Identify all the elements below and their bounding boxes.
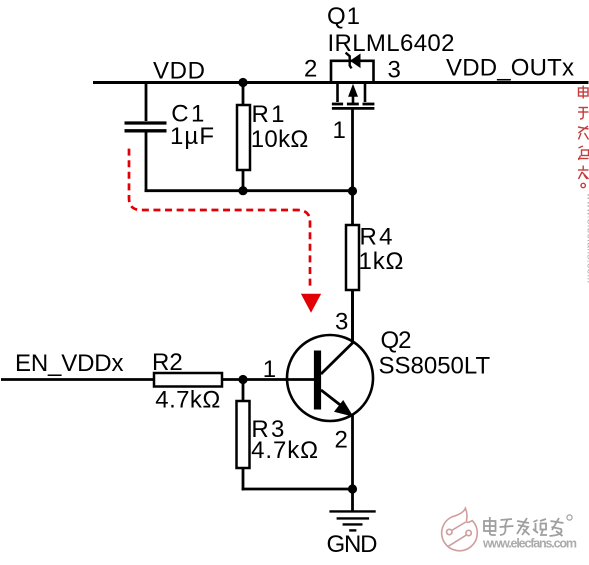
svg-text:VDD_OUTx: VDD_OUTx [446,55,574,82]
transistor Q2 NPN SS8050LT [222,335,373,421]
resistor R4 [346,191,359,343]
svg-text:Q1: Q1 [327,3,360,30]
gate bar [332,107,375,110]
Q2 emitter diagonal [321,390,348,411]
svg-text:IRLML6402: IRLML6402 [328,30,455,57]
resistor R1 [237,83,250,192]
svg-text:Q2: Q2 [381,327,412,354]
svg-text:VDD: VDD [153,57,205,84]
svg-text:GND: GND [327,531,378,558]
Q2 base wire [222,378,314,381]
svg-text:EN_VDDx: EN_VDDx [15,350,124,377]
chinese text dianzifashaoyou [484,515,572,536]
node junction dot at GND [348,484,357,493]
wire emitter vertical [351,415,354,489]
source stub left [336,84,339,102]
watermark bottom right logo and text [442,508,577,551]
body diode cathode bar [346,53,352,69]
red arrowhead [301,294,321,313]
svg-text:1kΩ: 1kΩ [359,248,404,275]
svg-text:2: 2 [335,427,348,454]
node junction dot rail at gate [348,186,357,195]
wire bottom rail R3-GND [242,488,353,491]
drain stub right [364,84,367,102]
channel bar middle [347,103,359,106]
svg-text:R4: R4 [360,223,393,250]
body diode box [331,61,374,83]
svg-text:1: 1 [263,356,276,383]
Q2 collector diagonal [321,343,353,375]
watermark right edge vertical chinese [578,86,589,284]
transistor Q1 P-MOSFET symbol [331,53,374,191]
wire EN_VDDx input [1,378,154,381]
svg-text:4.7kΩ: 4.7kΩ [155,387,220,414]
resistor R3 [237,380,250,491]
channel bar left [332,103,343,106]
red dashed feedback path [129,149,310,290]
svg-text:1µF: 1µF [170,123,214,150]
body diode triangle [350,54,361,69]
wire collector vertical [351,290,354,343]
channel bar right [363,103,375,106]
svg-text:2: 2 [304,56,317,83]
svg-text:www.elecfans.com: www.elecfans.com [482,537,577,551]
svg-text:3: 3 [335,308,348,335]
node junction dot top wire at R1 [238,78,247,87]
svg-text:4.7kΩ: 4.7kΩ [251,437,318,464]
svg-text:3: 3 [388,57,401,84]
svg-text:R2: R2 [152,349,183,376]
Q2 body circle [287,335,373,421]
wire VDD top rail [93,81,589,84]
svg-text:www.elecfans.com: www.elecfans.com [585,192,589,283]
logo circle with leaf [442,508,478,551]
substrate arrow up [348,84,358,97]
Q2 base bar [314,351,321,410]
wire bottom rail C1-R1-gate [145,189,354,192]
gate wire down [351,108,354,191]
svg-text:R1: R1 [252,101,285,128]
Q2 emitter arrowhead [334,400,354,417]
svg-text:1: 1 [333,117,346,144]
node junction dot base [238,375,247,384]
capacitor C1 [125,83,167,193]
resistor R2 [154,373,222,387]
ground symbol [329,489,375,530]
svg-text:10kΩ: 10kΩ [251,126,308,153]
node junction dot rail at R1 [238,186,247,195]
svg-text:SS8050LT: SS8050LT [379,353,491,380]
